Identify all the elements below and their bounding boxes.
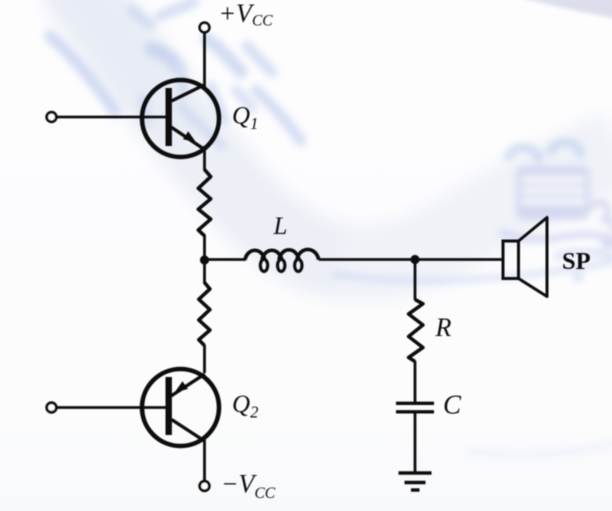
wire inductor to node B [319,258,416,261]
wire +VCC to Q1 collector [203,33,206,88]
node A [200,255,209,264]
input terminal 2 [47,403,57,413]
wire base Q2 [57,406,166,409]
resistor (lower emitter resistor) [199,283,210,346]
wire base Q1 [57,116,166,119]
svg-text:R: R [435,313,452,342]
terminal -VCC [200,481,210,491]
svg-text:C: C [443,390,462,420]
terminal +VCC [200,23,210,33]
capacitor C [396,403,434,412]
wire node A to lower resistor [203,260,206,284]
transistor Q2 [142,369,219,446]
speaker SP [503,218,547,297]
resistor (upper emitter resistor) [198,170,210,236]
watermark strokes (decorative) [50,2,301,146]
inductor L [245,249,319,271]
ground [399,473,432,490]
wire node B down to resistor R [414,260,417,301]
wire node B to speaker [415,258,503,261]
node B [410,255,419,264]
wire Q2 emitter to terminal -VCC [203,440,206,481]
wire Q1 emitter to upper resistor [203,146,206,171]
wire upper resistor to node A [203,235,206,262]
wire resistor R to capacitor C [414,361,417,402]
svg-text:SP: SP [562,248,591,275]
wire node A to inductor [205,258,247,261]
resistor R [409,300,423,362]
wire lower resistor to Q2 [203,345,206,373]
input terminal 1 [47,112,57,122]
transistor Q1 [142,80,219,157]
svg-text:L: L [273,213,288,240]
wire capacitor to ground [414,413,417,473]
